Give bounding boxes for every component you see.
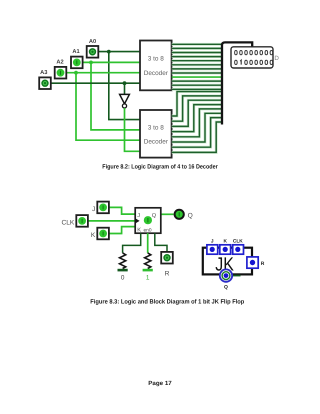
svg-text:A3: A3 xyxy=(40,70,47,76)
wire A2 branch vertical to decoder2 xyxy=(76,73,140,141)
inverter NOT gate xyxy=(120,94,130,103)
svg-text:CLK: CLK xyxy=(61,219,74,226)
svg-text:Q: Q xyxy=(188,212,193,219)
svg-text:CLK: CLK xyxy=(233,239,243,245)
clock triangle xyxy=(135,218,139,223)
wire inverter output to decoder2 enable xyxy=(125,108,141,151)
svg-text:3 to 8: 3 to 8 xyxy=(148,56,164,63)
display row1 digits 00000000 xyxy=(235,50,273,54)
svg-text:J: J xyxy=(92,206,95,213)
decoder U1 (3 to 8) box xyxy=(140,41,172,91)
svg-text:Figure 8.2: Logic Diagram of 4: Figure 8.2: Logic Diagram of 4 to 16 Dec… xyxy=(102,164,218,171)
svg-text:R: R xyxy=(261,261,265,267)
input pin A0 xyxy=(87,46,99,58)
svg-text:R: R xyxy=(165,271,170,278)
svg-text:en0: en0 xyxy=(144,227,152,233)
wire A1 horizontal xyxy=(83,61,140,63)
svg-text:K: K xyxy=(91,232,96,239)
wire A0 branch vertical to decoder2 xyxy=(109,52,140,120)
wire A2 horizontal xyxy=(66,72,140,74)
decoder U2 staircase output wires xyxy=(172,92,221,153)
resistor R2 zigzag xyxy=(145,253,151,269)
constant 0 bar xyxy=(118,269,128,272)
wire J to flipflop xyxy=(109,207,135,214)
flip-flop U3 box xyxy=(135,208,161,233)
input pin A3 xyxy=(39,77,51,89)
decoder U1 output bundle halo xyxy=(172,44,221,89)
output pin Q xyxy=(175,210,184,219)
wire to resistor R2 xyxy=(147,233,149,253)
port K xyxy=(220,245,231,254)
wire to pin R xyxy=(155,233,167,252)
decoder U1 output bundle wires xyxy=(172,44,221,89)
wire stub at Q xyxy=(232,275,240,277)
port J xyxy=(207,245,218,254)
svg-text:0: 0 xyxy=(121,275,125,282)
wire Q output xyxy=(161,213,174,215)
node A0 branch junction xyxy=(107,50,111,54)
svg-text:A0: A0 xyxy=(89,39,96,45)
svg-text:J: J xyxy=(137,213,140,219)
svg-text:A1: A1 xyxy=(72,49,79,55)
svg-text:Page 17: Page 17 xyxy=(148,380,172,387)
input pin K xyxy=(97,228,109,240)
input pin A2 xyxy=(55,67,67,79)
wire active output (bright) xyxy=(172,76,221,78)
svg-text:Q: Q xyxy=(224,285,228,291)
node A1 branch junction xyxy=(89,61,93,65)
svg-text:D: D xyxy=(274,55,279,62)
constant 1 bar xyxy=(143,269,153,272)
input pin J xyxy=(97,202,109,214)
wire A1 branch vertical to decoder2 xyxy=(91,62,140,129)
svg-text:Q: Q xyxy=(152,213,157,219)
svg-text:J: J xyxy=(211,239,214,245)
wire K to flipflop xyxy=(109,227,135,234)
node A3 inverter junction xyxy=(123,81,127,85)
port Q xyxy=(220,269,232,281)
wire A3 horizontal xyxy=(51,82,140,84)
node A2 branch junction xyxy=(74,71,78,75)
svg-text:K: K xyxy=(223,239,227,245)
decoder U2 (3 to 8) box xyxy=(140,110,172,158)
svg-text:1: 1 xyxy=(146,275,150,282)
svg-text:A2: A2 xyxy=(56,60,63,66)
flip-flop state indicator xyxy=(144,216,152,224)
wire to resistor R1 xyxy=(123,233,141,253)
svg-text:Decoder: Decoder xyxy=(144,139,169,146)
input pin R xyxy=(161,252,173,264)
input pin A1 xyxy=(71,57,83,69)
wire A3 to inverter input xyxy=(124,83,126,94)
input pin CLK xyxy=(76,215,88,227)
display row2 digits 01000000 xyxy=(235,60,273,65)
wire A0 horizontal xyxy=(98,51,140,53)
bus splitter spine xyxy=(222,42,252,124)
JK block box xyxy=(203,248,252,275)
svg-text:Figure 8.3: Logic and Block Di: Figure 8.3: Logic and Block Diagram of 1… xyxy=(90,299,244,306)
svg-text:Decoder: Decoder xyxy=(144,70,169,77)
resistor R1 zigzag xyxy=(120,253,126,269)
port CLK xyxy=(233,245,244,254)
wire CLK to flipflop xyxy=(88,220,135,222)
port R xyxy=(247,257,258,268)
display D box xyxy=(231,47,273,68)
svg-text:K: K xyxy=(137,227,141,233)
svg-text:3 to 8: 3 to 8 xyxy=(148,125,164,132)
decoder U2 staircase halo xyxy=(172,92,221,153)
